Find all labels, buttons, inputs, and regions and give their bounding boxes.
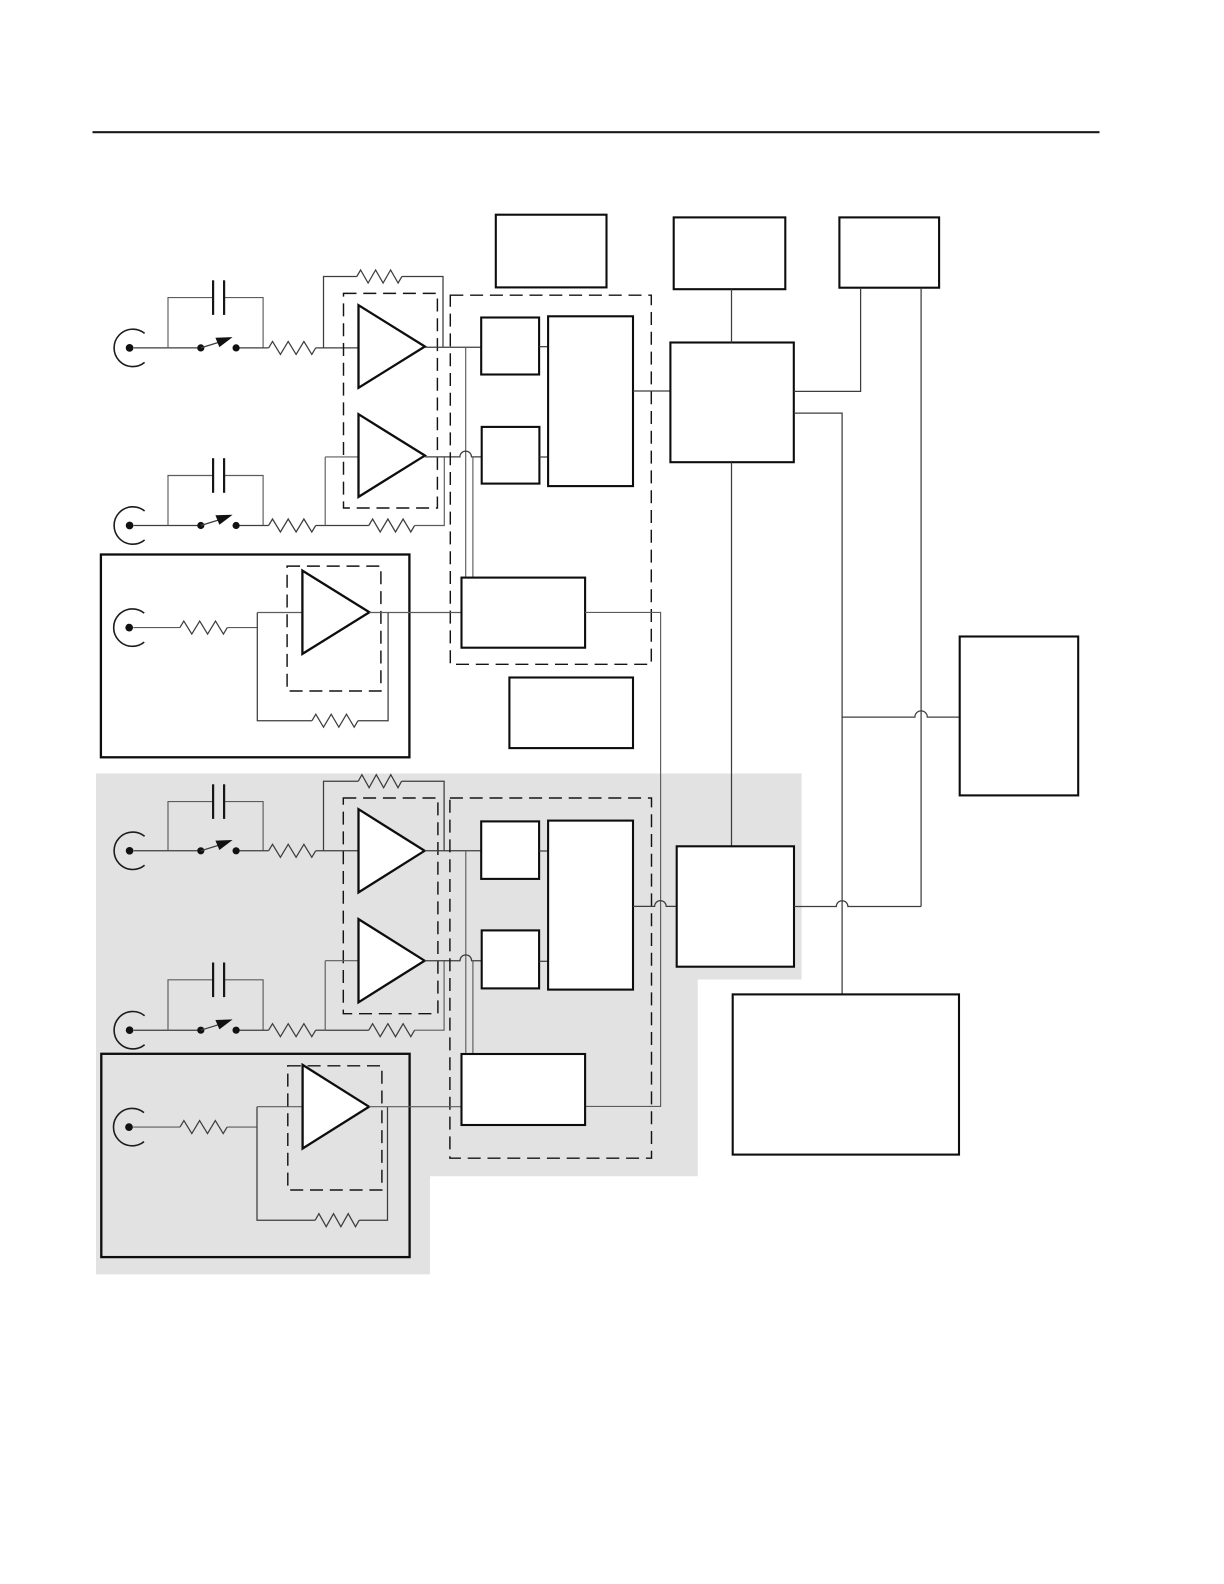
feedback resistor R7 loop (op-amp U4): [324, 775, 445, 851]
block B1 (top left): [496, 215, 607, 288]
block B3 (top right): [839, 217, 939, 287]
resistor R8: [269, 1024, 316, 1037]
wire S2 to resistor R3: [240, 525, 269, 527]
feedback resistor R2 loop (op-amp U1): [324, 270, 444, 348]
block ADC upper (tall): [548, 316, 633, 486]
capacitor C4 bypass loop: [168, 963, 263, 1031]
block b1 (mux A): [481, 318, 539, 375]
wire S3 to resistor R6: [240, 850, 269, 852]
wire mono-upper to mono-lower bus: [585, 612, 661, 1106]
mono block upper: [462, 578, 586, 648]
op-amp U2: [359, 414, 425, 497]
wire b2 to ADC block: [539, 456, 548, 458]
block ADC lower (tall): [548, 821, 633, 990]
resistor R3: [269, 519, 316, 532]
phono amp box (upper): [101, 555, 410, 758]
input jack J5 (line in B-right): [114, 1011, 145, 1048]
wire node to op-amp U6: [257, 1106, 303, 1108]
resistor R10: [180, 1121, 227, 1134]
node branch C to mono block (vertical): [465, 851, 467, 1054]
top horizontal rule: [93, 131, 1100, 133]
switch S4: [197, 1019, 240, 1033]
wire B3 down to M2 line: [920, 288, 922, 907]
wire R10 to node: [227, 1126, 257, 1128]
feedback resistor R9 (op-amp U5): [325, 961, 444, 1037]
wire U3 output to mono block: [369, 612, 461, 614]
resistor R5: [180, 621, 227, 634]
block B4 (right tall): [960, 637, 1078, 796]
wire J3 to resistor R5: [133, 627, 180, 629]
big dashed box (codec upper): [450, 295, 651, 664]
wire ADC to mixer M1: [633, 390, 670, 392]
phono feedback loop (upper): [257, 613, 388, 728]
op-amp U6 dashed box: [288, 1066, 382, 1190]
feedback resistor R4 (op-amp U2): [325, 457, 444, 532]
op-amp pair dashed box U1/U2: [344, 293, 438, 508]
switch S3: [197, 840, 240, 854]
wire M2 out to B3 (hop over down-bus): [794, 901, 921, 907]
switch S2: [197, 515, 240, 529]
wire node to op-amp U3: [257, 612, 302, 614]
wire R3 to feedback node: [316, 525, 326, 527]
wire bus branch to B4 (hop over B3 line): [842, 711, 960, 717]
wire R5 to node: [227, 627, 257, 629]
node branch B to mono block (vertical): [472, 457, 474, 578]
input jack J6 (phono lower): [113, 1108, 144, 1145]
node branch D to mono block (vertical): [472, 961, 474, 1054]
switch S1: [197, 337, 240, 351]
op-amp U5: [359, 919, 425, 1002]
resistor R1: [269, 341, 316, 354]
big dashed box (codec lower): [450, 798, 652, 1158]
wire U2 output to block b2 (hop over branch A): [425, 451, 482, 457]
op-amp U3 dashed box: [287, 566, 381, 691]
wire M1 out to B3 (up): [794, 288, 861, 392]
block b2 (mux B): [482, 427, 540, 484]
block b4 (mux D): [482, 930, 539, 988]
wire b3 to ADC lower: [539, 850, 548, 852]
wire S4 to resistor R8: [240, 1029, 269, 1031]
wire M1 out down-bus: [794, 413, 842, 994]
wire b1 to ADC block: [539, 346, 548, 348]
wire J4 to switch S3: [134, 850, 198, 852]
wire B2 down to M1: [731, 289, 733, 342]
wire b4 to ADC lower: [539, 960, 548, 962]
op-amp U6: [303, 1065, 369, 1149]
block B2 (top middle): [674, 217, 786, 289]
input jack J2 (line in A-right): [114, 507, 145, 544]
block mute (below dashed box): [509, 678, 633, 749]
gray shaded region (channel 2 section background): [96, 774, 802, 1275]
op-amp U1: [359, 305, 425, 388]
wire U4 output to block b3: [425, 850, 482, 852]
phono feedback loop (lower): [257, 1107, 388, 1227]
op-amp U3: [302, 571, 369, 654]
wire U6 output to mono block lower: [369, 1106, 462, 1108]
wire J1 to switch S1: [134, 347, 198, 349]
wire J2 to switch S2: [134, 525, 198, 527]
wire M1 down to M2: [731, 462, 733, 846]
wire S1 to resistor R1: [240, 347, 269, 349]
wire bus to B4 done above - block B5 (bottom right): [733, 994, 959, 1154]
capacitor C1 bypass loop: [168, 280, 263, 348]
mixer block M2: [677, 846, 794, 966]
op-amp U4: [359, 809, 425, 892]
wire U1 output to block b1: [425, 346, 481, 348]
wire R6 to op-amp U4 input: [316, 850, 359, 852]
wire ADC lower to mixer M2 (hop over mono bus): [633, 901, 677, 907]
wire U5 output to block b4 (hop over branch C): [425, 955, 482, 961]
phono amp box (lower): [101, 1054, 409, 1257]
input jack J3 (phono upper): [114, 609, 145, 646]
wire J6 to resistor R10: [133, 1126, 180, 1128]
input jack J1 (line in A-left): [114, 329, 145, 366]
capacitor C2 bypass loop: [168, 458, 263, 525]
wire node up to op-amp U2 input: [325, 457, 358, 526]
block b3 (mux C): [481, 821, 539, 879]
mixer block M1: [670, 343, 793, 463]
node branch A to mono block (vertical): [465, 347, 467, 577]
wire R8 to feedback node: [316, 1029, 326, 1031]
op-amp pair dashed box U4/U5: [343, 798, 438, 1014]
wire J5 to switch S4: [134, 1029, 198, 1031]
wire R1 to op-amp U1 input: [316, 347, 359, 349]
wire node up to op-amp U5 input: [325, 961, 358, 1030]
capacitor C3 bypass loop: [168, 784, 263, 851]
resistor R6: [269, 844, 316, 857]
mono block lower: [462, 1054, 586, 1125]
input jack J4 (line in B-left): [114, 832, 145, 869]
